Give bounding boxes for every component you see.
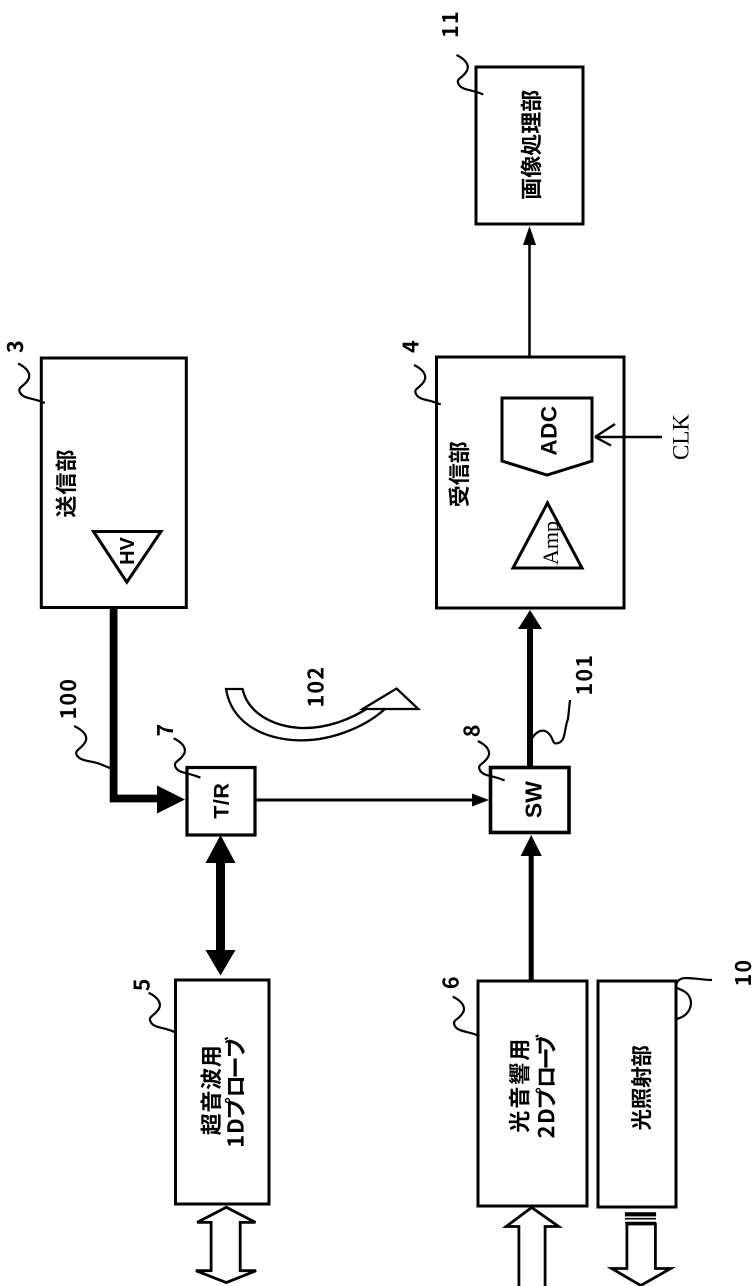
text 光音響用	[509, 1041, 530, 1132]
arrowhead 100 into T/R	[157, 786, 185, 814]
svg-text:HV: HV	[117, 536, 139, 564]
label 102	[307, 668, 324, 706]
svg-text:ADC: ADC	[537, 405, 562, 455]
box 3 transmitter	[41, 358, 186, 608]
text 超音波用	[201, 1047, 222, 1135]
label 8	[463, 726, 479, 737]
text 1Dプローブ	[225, 1037, 245, 1146]
text 2Dプローブ	[535, 1034, 555, 1137]
text 受信部	[448, 442, 469, 507]
box 11 image processing unit	[476, 67, 583, 224]
label 7	[157, 725, 173, 736]
wire T/R to SW	[255, 799, 474, 802]
text 光照射部	[631, 1046, 651, 1130]
label 4	[403, 341, 419, 353]
double arrow T/R to probe 5	[206, 835, 236, 976]
ADC pentagon	[502, 398, 592, 475]
emission bars	[625, 1212, 656, 1222]
label 101	[576, 656, 593, 693]
arrowhead into SW	[472, 794, 489, 807]
box 10 light irradiation unit	[598, 981, 676, 1207]
curved arrow 102	[226, 689, 418, 741]
light emission arrow below box 10	[612, 1224, 671, 1286]
box 8 SW switch	[491, 768, 570, 833]
leader 11	[457, 55, 484, 95]
arrow box4 to box11	[523, 226, 536, 357]
arrow from probe 6 to SW	[521, 835, 542, 980]
label 5	[134, 980, 150, 991]
leader 3	[18, 364, 45, 404]
label 3	[7, 342, 24, 353]
svg-text:T/R: T/R	[210, 783, 234, 819]
leader 5	[149, 993, 176, 1033]
leader 8	[478, 741, 505, 781]
wire 100 thick line from box3	[114, 608, 158, 799]
hollow arrow into probe 6	[506, 1208, 558, 1286]
svg-text:Amp: Amp	[538, 521, 563, 565]
text 画像処理部	[521, 90, 542, 198]
svg-text:SW: SW	[521, 781, 547, 818]
hollow double arrow below probe 5	[196, 1207, 256, 1282]
arrow 101 SW to box4	[518, 610, 542, 768]
label 6	[442, 977, 459, 988]
box 7 T/R switch	[187, 768, 255, 836]
leader 10	[676, 978, 712, 1019]
label 100	[60, 680, 77, 718]
svg-text:CLK: CLK	[669, 414, 694, 460]
box 5 ultrasound 1D probe	[176, 980, 270, 1204]
leader 7	[174, 738, 201, 778]
HV triangle	[94, 532, 162, 583]
leader 100	[74, 726, 114, 770]
label 11	[442, 13, 458, 36]
label 10	[735, 961, 752, 985]
box 4 receiver	[437, 357, 625, 608]
leader 6	[453, 997, 480, 1037]
leader 4	[414, 365, 441, 405]
text 送信部	[55, 450, 76, 517]
leader 101	[531, 700, 571, 743]
Amp triangle	[513, 503, 582, 568]
box 6 photoacoustic 2D probe	[478, 981, 587, 1206]
CLK arrow into ADC	[595, 424, 662, 446]
